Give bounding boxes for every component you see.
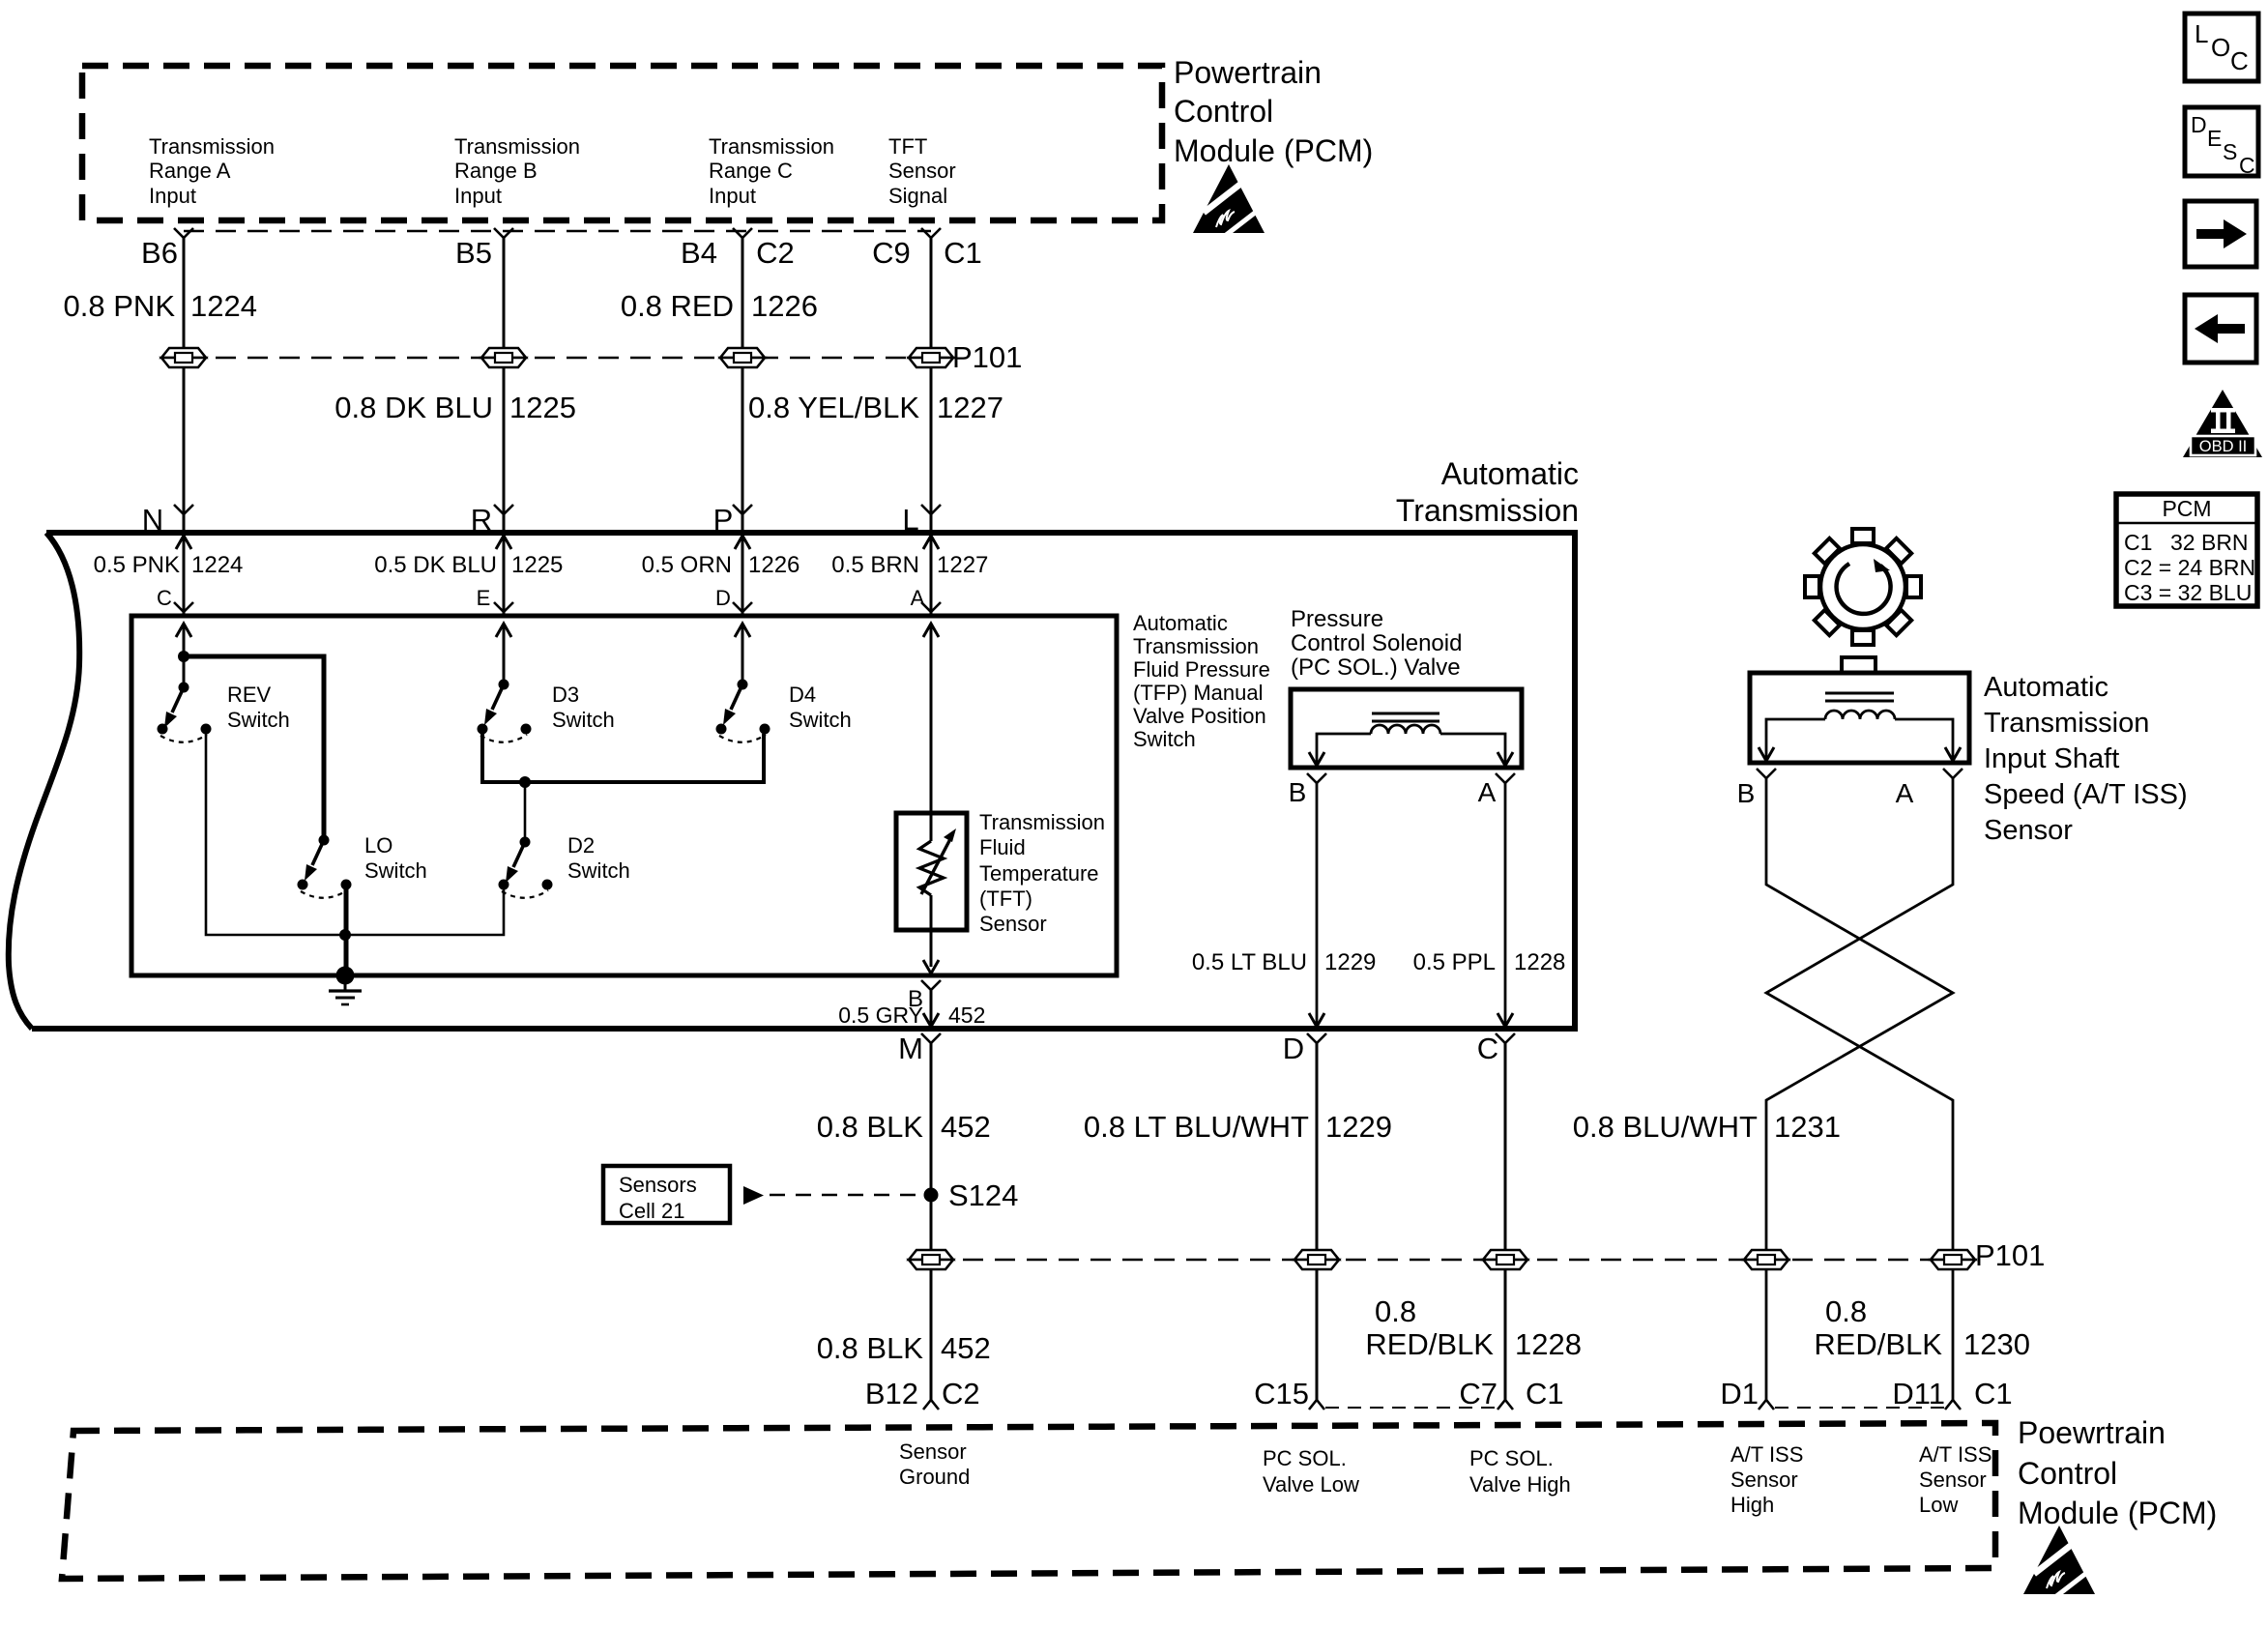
svg-text:(TFT): (TFT) — [979, 887, 1032, 911]
svg-text:E: E — [477, 586, 491, 610]
svg-text:1227: 1227 — [937, 391, 1003, 424]
wire M sensor ground — [930, 1043, 933, 1250]
P101 pass-through connector on wire x=963 — [909, 348, 953, 367]
wire label 0.5 PPL 1228 — [1413, 949, 1566, 975]
P101 pass-through connector on wire x=1827 (row 2) — [1744, 1250, 1788, 1269]
wire label 0.8 YEL/BLK 1227 — [748, 391, 1003, 424]
P101 pass-through connector on wire x=1362 (row 2) — [1294, 1250, 1339, 1269]
label D2 Switch — [567, 833, 630, 883]
wire label 0.8 RED/BLK 1228 — [1365, 1294, 1582, 1361]
svg-text:Sensor: Sensor — [888, 159, 956, 183]
P101 pass-through connector on wire x=521 — [481, 348, 526, 367]
svg-text:Switch: Switch — [364, 858, 427, 883]
ground node dot — [336, 967, 355, 985]
pin terminal C15 at lower PCM — [1309, 1400, 1324, 1410]
connector P101 dashed line (row 2) — [931, 1259, 1953, 1261]
label S124 — [948, 1178, 1018, 1212]
left arrow icon box — [2185, 295, 2256, 363]
label: Pressure Control Solenoid (PC SOL.) Valve — [1291, 606, 1462, 681]
svg-text:0.5 GRY: 0.5 GRY — [838, 1003, 923, 1028]
D3 Switch — [478, 680, 532, 742]
svg-text:1228: 1228 — [1515, 1327, 1582, 1361]
svg-text:C1: C1 — [1526, 1377, 1564, 1410]
label: Automatic Transmission Fluid Pressure (TFP) Manual Valve Position Switch — [1133, 611, 1270, 751]
wire label 0.5 GRY 452 — [838, 1003, 985, 1028]
svg-text:C2 = 24 BRN: C2 = 24 BRN — [2124, 555, 2255, 580]
pin terminal B4 C2 at PCM — [733, 228, 752, 238]
pin terminal C7/C1 at lower PCM — [1497, 1400, 1513, 1410]
A/T ISS sensor box — [1750, 673, 1969, 763]
wire N junction to LO switch pivot — [184, 656, 324, 840]
lower PCM connector face dashed line (left) — [1325, 1407, 1497, 1409]
svg-text:E: E — [2207, 126, 2222, 151]
svg-text:P101: P101 — [1975, 1238, 2045, 1272]
svg-text:Powertrain: Powertrain — [1174, 55, 1322, 90]
pin terminal B of PC SOL valve — [1307, 773, 1326, 783]
svg-text:Input Shaft: Input Shaft — [1984, 743, 2119, 774]
Pressure Control Solenoid (PC SOL.) Valve box — [1291, 689, 1522, 768]
svg-text:Fluid: Fluid — [979, 835, 1026, 859]
svg-text:0.5 PPL: 0.5 PPL — [1413, 949, 1496, 975]
wire C9-P101 — [930, 238, 933, 348]
wire arrow into TFP switch x=963 — [923, 624, 939, 637]
ESD static-sensitive symbol (top) — [1193, 164, 1267, 236]
svg-text:A: A — [1478, 777, 1497, 807]
svg-text:REV: REV — [227, 683, 272, 707]
pin label C2 — [942, 1377, 980, 1410]
wire label 0.8 RED 1226 — [621, 289, 818, 323]
title: Automatic Transmission — [1396, 456, 1579, 528]
pin label B — [1737, 778, 1756, 808]
svg-text:Module (PCM): Module (PCM) — [2018, 1496, 2217, 1530]
svg-text:D11: D11 — [1892, 1377, 1945, 1410]
pin label E — [477, 586, 491, 610]
svg-text:Module (PCM): Module (PCM) — [1174, 133, 1373, 168]
svg-text:B: B — [1737, 778, 1756, 808]
svg-text:Poewrtrain: Poewrtrain — [2018, 1415, 2166, 1450]
wire PC SOL high to PCM — [1504, 1269, 1507, 1400]
svg-text:C2: C2 — [756, 236, 795, 270]
svg-text:Switch: Switch — [789, 708, 852, 732]
svg-text:Transmission: Transmission — [149, 134, 275, 159]
wire L to TFT sensor — [930, 624, 933, 815]
svg-text:RED/BLK: RED/BLK — [1814, 1327, 1942, 1361]
pin label L — [902, 503, 918, 537]
svg-text:452: 452 — [941, 1331, 991, 1365]
pin label B12 — [865, 1377, 918, 1410]
svg-text:B: B — [1289, 777, 1307, 807]
LOC icon box — [2185, 14, 2258, 81]
D4 Switch — [716, 680, 771, 742]
svg-text:0.8 RED: 0.8 RED — [621, 289, 734, 323]
svg-text:1226: 1226 — [751, 289, 818, 323]
svg-text:B12: B12 — [865, 1377, 918, 1410]
wire label 0.5 BRN 1227 — [831, 552, 988, 578]
svg-text:Transmission: Transmission — [1984, 708, 2149, 739]
svg-text:Signal: Signal — [888, 184, 947, 208]
LO Switch — [298, 835, 352, 898]
svg-text:PC SOL.: PC SOL. — [1469, 1446, 1554, 1470]
pin label A — [1478, 777, 1497, 807]
pin terminal A of PC SOL valve — [1496, 773, 1515, 783]
svg-text:Range A: Range A — [149, 159, 231, 183]
junction node on D3/D4 bus — [519, 776, 531, 788]
pin label C9 — [872, 236, 911, 270]
svg-text:0.8: 0.8 — [1825, 1294, 1867, 1328]
svg-text:1224: 1224 — [190, 289, 257, 323]
wire x=521 P101 to transmission — [503, 367, 506, 533]
svg-text:Transmission: Transmission — [1133, 634, 1259, 658]
svg-text:Valve Position: Valve Position — [1133, 704, 1266, 728]
pin terminal B12/C2 at lower PCM — [923, 1400, 939, 1410]
P101 pass-through connector on wire x=190 — [161, 348, 206, 367]
svg-text:D: D — [1283, 1032, 1304, 1065]
wire arrow into transmission x=768 — [735, 536, 750, 616]
reluctor gear icon — [1805, 529, 1921, 645]
svg-text:Valve High: Valve High — [1469, 1472, 1571, 1497]
pin terminal B6 at PCM — [174, 228, 193, 238]
pin terminal C at TFP switch — [174, 602, 193, 612]
svg-text:C: C — [1477, 1032, 1498, 1065]
label D3 Switch — [552, 683, 615, 732]
svg-text:0.8 BLK: 0.8 BLK — [817, 1331, 924, 1365]
svg-text:1226: 1226 — [748, 552, 800, 578]
svg-text:0.8 DK BLU: 0.8 DK BLU — [334, 391, 493, 424]
pin terminal A at TFP switch — [921, 602, 941, 612]
pin label C2 — [756, 236, 795, 270]
pin label C7 — [1459, 1377, 1497, 1410]
svg-text:Range B: Range B — [454, 159, 538, 183]
label PC SOL. Valve Low — [1263, 1446, 1359, 1497]
svg-text:Sensors: Sensors — [619, 1173, 697, 1197]
pin terminal D at TFP switch — [733, 602, 752, 612]
junction node on wire N — [178, 651, 189, 662]
pin label C15 — [1254, 1377, 1309, 1410]
wire label 0.8 BLU/WHT 1231 — [1573, 1110, 1841, 1144]
DESC icon box — [2185, 107, 2258, 178]
svg-text:C: C — [2230, 46, 2249, 75]
svg-text:OBD II: OBD II — [2199, 438, 2248, 455]
title: Powertrain Control Module (PCM) — [1174, 55, 1373, 168]
right arrow icon box — [2185, 201, 2256, 267]
svg-text:1229: 1229 — [1325, 1110, 1392, 1144]
label A/T ISS Sensor High — [1730, 1442, 1803, 1517]
svg-text:Input: Input — [149, 184, 196, 208]
wire B4-P101 — [741, 238, 744, 348]
pin label D11 — [1892, 1377, 1945, 1410]
pickup coil A/T ISS sensor — [1759, 693, 1961, 761]
svg-text:Switch: Switch — [1133, 727, 1196, 751]
svg-text:0.8: 0.8 — [1375, 1294, 1416, 1328]
svg-text:C3 = 32 BLU: C3 = 32 BLU — [2124, 580, 2252, 605]
svg-text:C15: C15 — [1254, 1377, 1309, 1410]
pin terminal N at transmission — [174, 505, 193, 514]
wire bus junction to D2 pivot — [524, 782, 527, 842]
svg-text:C7: C7 — [1459, 1377, 1497, 1410]
junction node to ground — [339, 929, 351, 941]
svg-text:Transmission: Transmission — [454, 134, 580, 159]
wire arrow into transmission x=963 — [923, 536, 939, 616]
wire arrow TFT to TFP box edge — [923, 960, 939, 974]
svg-text:Temperature: Temperature — [979, 861, 1099, 886]
svg-text:452: 452 — [941, 1110, 991, 1144]
connector P101 dashed line (row 1) — [184, 357, 931, 359]
svg-text:D4: D4 — [789, 683, 816, 707]
pin terminal E at TFP switch — [494, 602, 513, 612]
svg-text:M: M — [898, 1032, 923, 1065]
label PC SOL. Valve High — [1469, 1446, 1571, 1497]
wire D3 output bus — [482, 734, 764, 782]
wire R to D3 switch — [503, 624, 506, 684]
wire label 0.5 DK BLU 1225 — [374, 552, 563, 578]
svg-text:1230: 1230 — [1963, 1327, 2030, 1361]
pin label B — [1289, 777, 1307, 807]
svg-text:0.8 PNK: 0.8 PNK — [64, 289, 176, 323]
svg-text:Control: Control — [1174, 94, 1273, 129]
svg-text:D3: D3 — [552, 683, 579, 707]
wire arrow into transmission x=521 — [496, 536, 511, 616]
pin terminal A of A/T ISS sensor — [1943, 769, 1963, 778]
pin terminal C — [1496, 1033, 1515, 1043]
wire x=190 P101 to transmission — [183, 367, 186, 533]
wire PC SOL B to box bottom — [1309, 783, 1324, 1027]
pin terminal B5 at PCM — [494, 228, 513, 238]
svg-text:0.5 PNK: 0.5 PNK — [94, 552, 180, 578]
wire label 0.8 RED/BLK 1230 — [1814, 1294, 2030, 1361]
wire P to D4 switch — [741, 624, 744, 684]
lower PCM connector face dashed line (right) — [1775, 1407, 1944, 1409]
reference arrow to S124 — [743, 1186, 918, 1205]
svg-text:L: L — [2195, 19, 2208, 48]
wire label 0.8 PNK 1224 — [64, 289, 257, 323]
pin label B — [908, 986, 923, 1012]
svg-text:0.8 LT BLU/WHT: 0.8 LT BLU/WHT — [1084, 1110, 1309, 1144]
pin terminal C9 C1 at PCM — [921, 228, 941, 238]
pin terminal D — [1307, 1033, 1326, 1043]
PCM connector table — [2116, 494, 2257, 606]
Powertrain Control Module (PCM) dashed outline box (top) — [82, 66, 1162, 220]
svg-text:0.8 BLU/WHT: 0.8 BLU/WHT — [1573, 1110, 1758, 1144]
label Sensor Ground — [899, 1439, 970, 1489]
svg-text:Transmission: Transmission — [709, 134, 834, 159]
wire label 0.8 LT BLU/WHT 1229 — [1084, 1110, 1392, 1144]
label P101 (row 1) — [952, 340, 1022, 374]
wire sensor ground to PCM — [930, 1269, 933, 1400]
svg-text:Switch: Switch — [552, 708, 615, 732]
svg-text:C2: C2 — [942, 1377, 980, 1410]
svg-text:Automatic: Automatic — [1133, 611, 1228, 635]
svg-text:A: A — [1896, 778, 1914, 808]
svg-text:1225: 1225 — [511, 552, 563, 578]
svg-text:C9: C9 — [872, 236, 911, 270]
Automatic Transmission enclosure box — [9, 533, 1575, 1029]
svg-text:Speed (A/T ISS): Speed (A/T ISS) — [1984, 779, 2188, 810]
svg-text:Sensor: Sensor — [979, 912, 1047, 936]
wire label 0.5 LT BLU 1229 — [1192, 949, 1377, 975]
svg-text:1225: 1225 — [509, 391, 576, 424]
label: Transmission Range C Input — [709, 134, 834, 208]
pin label D1 — [1720, 1377, 1759, 1410]
svg-text:Valve Low: Valve Low — [1263, 1472, 1359, 1497]
svg-text:(PC SOL.) Valve: (PC SOL.) Valve — [1291, 654, 1461, 681]
ground symbol — [329, 975, 362, 1004]
wire PC SOL A to box bottom — [1497, 783, 1513, 1027]
svg-text:0.5 LT BLU: 0.5 LT BLU — [1192, 949, 1307, 975]
pin terminal D1 at lower PCM — [1759, 1400, 1774, 1410]
label D4 Switch — [789, 683, 852, 732]
Sensors Cell 21 reference box — [603, 1166, 730, 1223]
wire N to REV switch — [183, 624, 186, 687]
svg-text:Cell 21: Cell 21 — [619, 1199, 684, 1223]
wire D PC SOL low — [1316, 1043, 1319, 1250]
wire LO switch output to ground — [344, 889, 349, 975]
label REV Switch — [227, 683, 290, 732]
svg-text:D: D — [2191, 112, 2207, 137]
svg-text:C1: C1 — [2124, 530, 2152, 555]
pin label C1 — [944, 236, 982, 270]
pin label B5 — [455, 236, 492, 270]
wire x=768 P101 to transmission — [741, 367, 744, 533]
ESD static-sensitive symbol (bottom) — [2023, 1526, 2098, 1597]
label A/T ISS Sensor Low — [1919, 1442, 1992, 1517]
svg-text:0.5 ORN: 0.5 ORN — [642, 552, 732, 578]
svg-text:Range C: Range C — [709, 159, 793, 183]
svg-text:0.5 DK BLU: 0.5 DK BLU — [374, 552, 497, 578]
pin terminal P at transmission — [733, 505, 752, 514]
pin terminal M — [921, 1033, 941, 1043]
label: Transmission Range B Input — [454, 134, 580, 208]
pin label C — [157, 586, 172, 610]
svg-text:TFT: TFT — [888, 134, 927, 159]
label: Automatic Transmission Input Shaft Speed (A/T ISS) Sensor — [1984, 672, 2188, 846]
PCM connector face dashed line — [184, 230, 931, 232]
wire label 0.8 BLK 452 (upper) — [817, 1110, 991, 1144]
svg-text:Input: Input — [454, 184, 502, 208]
svg-text:0.8 YEL/BLK: 0.8 YEL/BLK — [748, 391, 919, 424]
wire PC SOL low to PCM — [1316, 1269, 1319, 1400]
gear mounting tab — [1842, 657, 1875, 673]
wire A/T ISS A crossing — [1766, 778, 1953, 1400]
svg-text:P101: P101 — [952, 340, 1022, 374]
TFT sensor box — [896, 813, 967, 930]
svg-text:RED/BLK: RED/BLK — [1365, 1327, 1494, 1361]
svg-text:B6: B6 — [141, 236, 178, 270]
svg-text:B5: B5 — [455, 236, 492, 270]
pin terminal B of A/T ISS sensor — [1757, 769, 1776, 778]
svg-text:S: S — [2223, 139, 2237, 164]
title: Poewrtrain Control Module (PCM) (bottom) — [2018, 1415, 2217, 1530]
wire arrow into TFP switch x=768 — [735, 624, 750, 637]
svg-text:Sensor: Sensor — [899, 1439, 967, 1464]
svg-text:Fluid Pressure: Fluid Pressure — [1133, 657, 1270, 682]
wire B5-P101 — [503, 238, 506, 348]
pin label P — [713, 503, 734, 537]
svg-text:Sensor: Sensor — [1919, 1468, 1987, 1492]
label LO Switch — [364, 833, 427, 883]
REV Switch — [158, 683, 212, 742]
svg-text:Automatic: Automatic — [1984, 672, 2108, 703]
pin terminal R at transmission — [494, 505, 513, 514]
svg-text:A: A — [911, 586, 925, 610]
svg-text:(TFP) Manual: (TFP) Manual — [1133, 681, 1263, 705]
pin label C1 — [1974, 1377, 2013, 1410]
svg-text:Transmission: Transmission — [1396, 493, 1579, 528]
svg-text:1228: 1228 — [1514, 949, 1565, 975]
pin label M — [898, 1032, 923, 1065]
P101 pass-through connector on wire x=1557 (row 2) — [1483, 1250, 1527, 1269]
splice node S124 — [924, 1188, 939, 1203]
svg-text:Control: Control — [2018, 1456, 2117, 1491]
pin label A — [1896, 778, 1914, 808]
svg-text:D1: D1 — [1720, 1377, 1759, 1410]
svg-text:0.8 BLK: 0.8 BLK — [817, 1110, 924, 1144]
wire label 0.5 PNK 1224 — [94, 552, 244, 578]
pin label C1 — [1526, 1377, 1564, 1410]
pin label B6 — [141, 236, 178, 270]
wire label 0.8 DK BLU 1225 — [334, 391, 576, 424]
wire x=963 P101 to transmission — [930, 367, 933, 533]
svg-text:C: C — [2239, 153, 2255, 178]
pin label A — [911, 586, 925, 610]
svg-text:Transmission: Transmission — [979, 810, 1105, 834]
TFP manual valve position switch box — [131, 616, 1117, 975]
Powertrain Control Module (PCM) dashed outline box (bottom) — [62, 1423, 1995, 1579]
svg-text:1231: 1231 — [1774, 1110, 1841, 1144]
P101 pass-through connector on wire x=768 — [720, 348, 765, 367]
svg-text:1229: 1229 — [1324, 949, 1376, 975]
svg-text:1227: 1227 — [937, 552, 988, 578]
P101 pass-through connector on wire x=2020 (row 2) — [1931, 1250, 1975, 1269]
svg-text:Automatic: Automatic — [1441, 456, 1579, 491]
svg-text:Ground: Ground — [899, 1465, 970, 1489]
label Transmission Fluid Temperature (TFT) Sensor — [979, 810, 1105, 936]
pin label D — [1283, 1032, 1304, 1065]
svg-text:Switch: Switch — [567, 858, 630, 883]
svg-text:S124: S124 — [948, 1178, 1018, 1212]
wire label 0.8 BLK 452 (lower) — [817, 1331, 991, 1365]
pin terminal D11/C1 at lower PCM — [1945, 1400, 1961, 1410]
svg-text:PC SOL.: PC SOL. — [1263, 1446, 1347, 1470]
pin label R — [471, 503, 492, 537]
OBD II icon — [2183, 390, 2262, 457]
wire arrow into TFP switch x=521 — [496, 624, 511, 637]
svg-text:LO: LO — [364, 833, 393, 858]
label: Transmission Range A Input — [149, 134, 275, 208]
svg-text:C1: C1 — [944, 236, 982, 270]
svg-text:PCM: PCM — [2162, 496, 2211, 521]
svg-text:A/T ISS: A/T ISS — [1730, 1442, 1803, 1467]
svg-text:Sensor: Sensor — [1730, 1468, 1798, 1492]
D2 Switch — [499, 837, 553, 898]
svg-text:A/T ISS: A/T ISS — [1919, 1442, 1992, 1467]
svg-text:Switch: Switch — [227, 708, 290, 732]
P101 pass-through connector on wire x=963 (row 2) — [909, 1250, 953, 1269]
label P101 (row 2) — [1975, 1238, 2045, 1272]
pin label N — [142, 503, 163, 537]
svg-text:Pressure: Pressure — [1291, 606, 1383, 632]
svg-text:Sensor: Sensor — [1984, 815, 2073, 846]
pin terminal L at transmission — [921, 505, 941, 514]
wire A/T ISS B crossing — [1766, 778, 1953, 1400]
pin label C — [1477, 1032, 1498, 1065]
svg-text:C1: C1 — [1974, 1377, 2013, 1410]
svg-text:Input: Input — [709, 184, 756, 208]
wire C PC SOL high — [1504, 1043, 1507, 1250]
wire REV switch output down — [206, 734, 340, 935]
svg-text:C: C — [157, 586, 172, 610]
wire B6-P101 — [183, 238, 186, 348]
svg-text:0.5 BRN: 0.5 BRN — [831, 552, 919, 578]
